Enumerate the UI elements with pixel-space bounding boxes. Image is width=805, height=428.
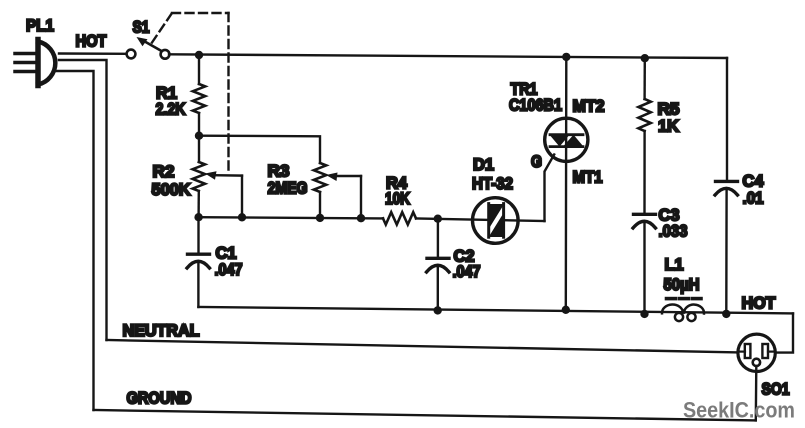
node R2 wiper [238, 213, 246, 221]
wire gate [545, 155, 555, 222]
svg-text:SO1: SO1 [762, 380, 790, 399]
wire to socket hot side [775, 313, 793, 352]
node R3 bottom [316, 214, 324, 222]
svg-text:50µH: 50µH [664, 275, 700, 294]
svg-text:G: G [531, 152, 542, 171]
wire link to R3 top [199, 136, 320, 163]
svg-text:L1: L1 [665, 255, 684, 274]
node C2 top [434, 215, 442, 223]
dashed link S1 to R2 [152, 13, 229, 170]
node mid rail left [194, 213, 202, 221]
wire C4 branch down [726, 58, 728, 180]
svg-text:MT2: MT2 [573, 97, 605, 116]
node triac top [562, 53, 570, 61]
svg-text:PL1: PL1 [26, 16, 54, 35]
wire triac branch vertical [565, 57, 568, 310]
wire R5 to C3 [643, 131, 645, 214]
wire R2 bottom lead [197, 191, 200, 217]
capacitor C2 [427, 219, 450, 311]
svg-text:NEUTRAL: NEUTRAL [123, 321, 200, 340]
inductor L1 [662, 304, 704, 321]
triac TR1 [545, 118, 588, 161]
svg-text:MT1: MT1 [573, 168, 603, 187]
node C4 bottom / L1 right [722, 310, 730, 318]
wire R1 top lead [198, 55, 200, 84]
svg-text:500K: 500K [152, 180, 192, 199]
svg-text:2.2K: 2.2K [156, 100, 187, 119]
svg-text:GROUND: GROUND [127, 389, 192, 408]
wire R4 to diac and gate [416, 219, 545, 222]
switch S1 [127, 37, 170, 59]
wire R5 top lead [643, 58, 646, 99]
wire R3 wiper down [360, 176, 362, 218]
resistor R4 [383, 212, 416, 224]
wire top HOT rail [169, 54, 727, 58]
node C3 bottom [640, 310, 648, 318]
socket SO1 [738, 334, 775, 371]
capacitor C3 [633, 214, 656, 314]
svg-text:10K: 10K [385, 189, 411, 208]
potentiometer R3 [314, 163, 326, 192]
svg-text:D1: D1 [473, 155, 494, 174]
node top R1 [195, 51, 203, 59]
node R1/R3 junction [195, 132, 203, 140]
capacitor C1 [187, 217, 210, 307]
wire NEUTRAL rail [107, 340, 739, 352]
potentiometer R2 [193, 162, 205, 191]
resistor R1 [193, 84, 205, 113]
wire GROUND rail [94, 410, 756, 420]
diac D1 [473, 198, 519, 244]
svg-text:1K: 1K [658, 117, 680, 136]
dashed core L1 [667, 297, 702, 301]
svg-text:.047: .047 [215, 260, 243, 279]
wire neutral from plug down [59, 60, 107, 340]
wire mid rail [199, 217, 383, 218]
svg-text:HT-32: HT-32 [472, 174, 513, 193]
svg-text:S1: S1 [133, 18, 150, 37]
wire socket ground down [755, 366, 758, 420]
svg-text:.033: .033 [659, 222, 688, 241]
wire R1 bottom lead [198, 113, 200, 162]
wire ground from plug down [56, 71, 94, 410]
plug PL1 [15, 40, 55, 86]
node R5 top [641, 54, 649, 62]
wire bottom rail [198, 307, 793, 313]
svg-text:2MEG: 2MEG [268, 179, 308, 198]
svg-text:HOT: HOT [742, 294, 777, 313]
svg-text:.047: .047 [453, 262, 481, 281]
node R3 wiper [357, 214, 365, 222]
svg-text:HOT: HOT [76, 32, 108, 51]
wire R3 bottom lead [319, 192, 321, 218]
capacitor C4 [715, 181, 738, 314]
svg-text:.01: .01 [743, 189, 764, 208]
node C2 bottom [434, 306, 442, 314]
svg-text:SeekIC.com: SeekIC.com [683, 398, 795, 423]
resistor R5 [638, 99, 650, 131]
wire HOT plug to switch [59, 52, 127, 55]
wire R2 wiper down [241, 176, 243, 218]
svg-text:C106B1: C106B1 [509, 96, 562, 115]
svg-text:R2: R2 [153, 162, 175, 181]
node triac bottom [562, 306, 570, 314]
